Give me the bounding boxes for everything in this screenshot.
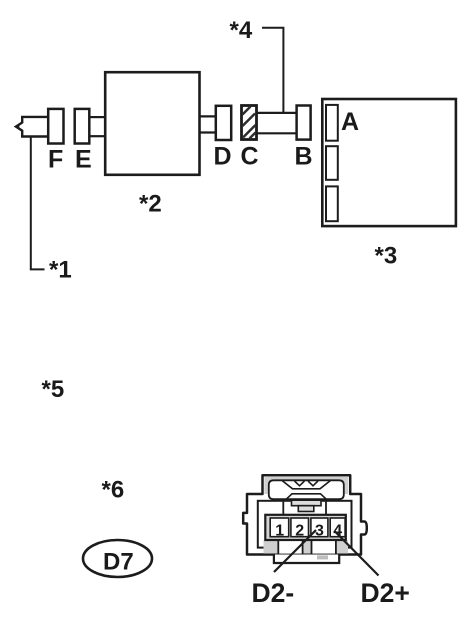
bowtie details in top section	[282, 481, 331, 499]
white tab right under pins	[312, 539, 336, 555]
wire *2 to D bottom stub	[200, 131, 216, 133]
svg-text:*6: *6	[102, 477, 125, 504]
slot 1 in box *3	[326, 105, 338, 141]
gray band below pin row	[264, 540, 349, 554]
wire E to *2 top stub	[89, 116, 105, 118]
terminal B	[297, 106, 311, 140]
svg-text:D2-: D2-	[252, 578, 295, 608]
box *2	[105, 72, 199, 175]
connector body silhouette (with top lock section, left notch, right bump)	[243, 475, 367, 554]
terminal D	[216, 106, 231, 140]
wire *2 to D top stub	[200, 115, 216, 117]
pin cell 1	[270, 518, 289, 537]
break arrowhead	[14, 123, 19, 129]
plug body with break arrow (left)	[16, 117, 48, 137]
terminal C (hatched)	[242, 106, 257, 140]
box *3	[322, 99, 456, 226]
leader line D2+	[335, 532, 379, 576]
center tab upper step	[292, 500, 322, 506]
svg-text:*3: *3	[375, 243, 398, 270]
svg-text:*4: *4	[230, 17, 253, 44]
inner cavity rectangle	[258, 501, 352, 548]
pin cell 4	[330, 518, 345, 537]
pin row box	[265, 515, 346, 540]
svg-text:C: C	[241, 143, 259, 171]
pin cell 2	[291, 518, 309, 537]
wire to *1	[31, 137, 45, 270]
leader line *4	[262, 28, 283, 113]
top lock section gray interior	[264, 477, 348, 494]
svg-text:2: 2	[295, 523, 304, 540]
top section inner white shape	[269, 480, 344, 499]
terminal E	[75, 109, 90, 144]
svg-text:*1: *1	[49, 257, 72, 284]
svg-text:*5: *5	[42, 376, 65, 403]
bottom tab	[274, 555, 339, 564]
hatch lines of C	[243, 107, 256, 139]
svg-text:D: D	[214, 143, 232, 171]
svg-text:B: B	[295, 143, 313, 171]
svg-text:1: 1	[275, 523, 284, 540]
terminal F	[48, 109, 63, 144]
center column left line	[282, 500, 284, 516]
svg-text:D2+: D2+	[361, 578, 410, 608]
bottom tab gray notch	[317, 555, 328, 559]
svg-text:*2: *2	[139, 191, 162, 218]
white tab left under pins	[278, 539, 302, 555]
pin cell 3	[311, 518, 328, 537]
svg-text:E: E	[75, 146, 92, 174]
slot 2 in box *3	[326, 146, 338, 180]
bar C to B bottom line	[257, 132, 297, 134]
svg-text:F: F	[48, 146, 63, 174]
bar C to B top line	[257, 112, 297, 114]
leader line D2-	[274, 530, 316, 572]
svg-text:A: A	[341, 108, 359, 136]
center tab lower step	[298, 506, 314, 512]
oval D7	[83, 540, 152, 577]
center column right line	[325, 500, 327, 516]
svg-text:D7: D7	[103, 549, 134, 576]
wire E to *2 bottom stub	[89, 135, 105, 137]
slot 3 in box *3	[326, 186, 338, 221]
